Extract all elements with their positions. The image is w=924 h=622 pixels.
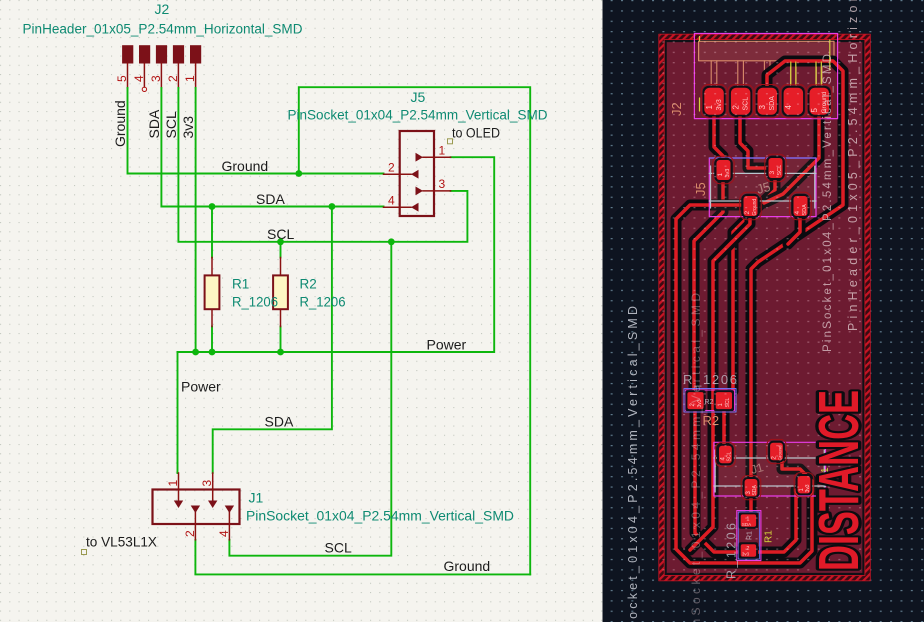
wire SDA from J2.3 to J5.4 xyxy=(161,88,383,207)
svg-text:J1: J1 xyxy=(249,490,264,506)
R1 courtyard xyxy=(737,511,761,561)
svg-text:SCL: SCL xyxy=(325,540,352,556)
resistor R2 body xyxy=(273,275,288,309)
junction Power at R2 xyxy=(277,349,284,356)
J2 pin number 2 xyxy=(166,75,180,82)
connector J2 pad 2 xyxy=(173,45,184,63)
J5 pin 1 lead xyxy=(416,153,451,162)
J1 reference (yellow) xyxy=(820,467,831,478)
connector J1 reference field xyxy=(249,490,264,506)
svg-text:PinSocket_01x04_P2.54mm_Vertic: PinSocket_01x04_P2.54mm_Vertical_SMD xyxy=(288,108,548,123)
svg-text:R1: R1 xyxy=(232,277,249,292)
J2 pad 3 (SDA) xyxy=(754,85,780,118)
svg-text:4: 4 xyxy=(217,530,231,537)
J2 pad 5 (Ground) xyxy=(806,85,832,118)
net label SDA (top horizontal) xyxy=(256,191,285,207)
junction SCL at R2 xyxy=(277,238,284,245)
svg-text:to VL53L1X: to VL53L1X xyxy=(86,535,157,550)
pcb view background xyxy=(603,0,924,622)
J2 pin 2 lead xyxy=(177,64,179,89)
resistor R1 bottom lead xyxy=(211,310,213,326)
svg-text:1: 1 xyxy=(183,75,197,82)
J5 silkscreen lines xyxy=(709,166,816,208)
resistor R2 top lead xyxy=(280,258,282,275)
trace 3v3 from R2 pad2 to R1 pad2 to J1 pad1 xyxy=(695,405,796,552)
wire SCL drop to R2 xyxy=(280,242,282,258)
net label Ground (bottom horizontal) xyxy=(444,558,491,574)
J5 reference (salmon) xyxy=(693,182,708,196)
svg-text:PinSocket_01x04_P2.54mm_Vertic: PinSocket_01x04_P2.54mm_Vertical_SMD xyxy=(246,509,514,524)
pcb board copper zone xyxy=(662,37,868,578)
svg-text:Ground: Ground xyxy=(222,158,269,174)
R1 reference (yellow) xyxy=(764,530,775,543)
silkscreen text PinSocket (on board bottom) xyxy=(689,293,703,622)
trace SDA top route from J2 pad3 along right edge xyxy=(751,61,843,518)
connector J2 pad 4 xyxy=(139,45,150,63)
J2 pin 4 lead (unconnected) xyxy=(142,64,146,92)
trace Ground from J2 pad5 to J5 pad2 xyxy=(764,93,819,203)
R1 fab value R_1206 (vertical) xyxy=(725,523,739,579)
trace through R2 gap xyxy=(690,216,750,550)
svg-text:Power: Power xyxy=(427,337,467,353)
R2 fab value R_1206 xyxy=(683,372,737,387)
svg-text:DISTANCE: DISTANCE xyxy=(808,390,871,571)
J5 pad 1 (3v3) xyxy=(713,156,734,183)
trace Ground from J5 pad2 along left edge and bottom to J1 pad2 xyxy=(676,205,812,563)
junction Power at R1 xyxy=(209,349,216,356)
net label SDA (vertical at J2 pin 3) xyxy=(146,109,162,138)
trace SCL from J5 pad3 to R2 pad1 to J1 pad4 xyxy=(724,178,775,450)
grid dots over board xyxy=(662,37,868,578)
pcb board edge cuts (hatched outline) xyxy=(659,34,871,581)
text annotation to OLED xyxy=(448,126,501,144)
J5 pin 2 lead xyxy=(384,170,419,179)
schematic sheet background xyxy=(0,0,603,622)
svg-text:SDA: SDA xyxy=(146,109,162,138)
J5 pad 2 (Ground) xyxy=(740,192,761,219)
J1 pin 1 lead xyxy=(174,473,183,508)
wire SDA riser down to J1.3 xyxy=(213,207,332,474)
net label SDA (bottom horizontal) xyxy=(265,414,294,430)
J1 fab reference (gray) xyxy=(749,460,765,477)
J1 pad 4 (SCL) xyxy=(716,442,736,466)
J5 fab reference (gray) xyxy=(755,179,772,197)
junction SDA at R1 xyxy=(209,203,216,210)
connector J5 value field PinSocket_01x04_P2.54mm_Vertical_SMD xyxy=(288,108,548,123)
net label SCL (top horizontal) xyxy=(267,226,294,242)
net label Power (right horizontal) xyxy=(427,337,467,353)
J2 pad 1 (3v3) xyxy=(701,85,727,118)
net label SCL (vertical at J2 pin 2) xyxy=(163,111,179,138)
text annotation to VL53L1X xyxy=(82,535,158,555)
resistor R1 value field R_1206 xyxy=(232,295,278,310)
J5 pad 3 (SCL) xyxy=(765,154,786,181)
silkscreen text PinSocket (left of board) xyxy=(626,306,640,622)
J5 pad 4 (SDA) xyxy=(790,192,811,219)
svg-text:4: 4 xyxy=(388,194,395,208)
J2 pin number 5 xyxy=(115,75,129,82)
connector J2 pad 3 xyxy=(156,45,167,63)
R2 pad 2 (3v3) xyxy=(685,390,705,411)
junction SDA at riser xyxy=(329,203,336,210)
J1 pin 4 lead xyxy=(225,506,234,540)
resistor R1 top lead xyxy=(211,258,213,275)
svg-text:to OLED: to OLED xyxy=(452,126,500,141)
wire SCL riser down to J1.4 xyxy=(229,242,391,556)
svg-text:PinHeader_01x05_P2.54mm_Horizo: PinHeader_01x05_P2.54mm_Horizontal_SMD xyxy=(23,22,303,37)
connector J5 body xyxy=(400,131,434,216)
connector J2 reference field xyxy=(155,1,170,17)
svg-text:3: 3 xyxy=(149,75,163,82)
svg-text:1: 1 xyxy=(166,480,180,487)
J2 silkscreen marks xyxy=(700,37,830,112)
J1 pin number 4 xyxy=(217,530,231,537)
resistor R2 bottom lead xyxy=(280,310,282,326)
net label SCL (bottom horizontal) xyxy=(325,540,352,556)
J2 pin number 3 xyxy=(149,75,163,82)
wire 3v3 from J2.1 to Power rail xyxy=(195,88,197,352)
connector J1 value field PinSocket_01x04_P2.54mm_Vertical_SMD xyxy=(246,509,514,524)
wire R2 bottom to Power rail xyxy=(280,327,282,353)
connector J2 pad 5 xyxy=(122,45,133,63)
wire SCL from J2.2 to J5.3 xyxy=(178,88,467,242)
resistor R2 reference field xyxy=(300,277,317,292)
J5 pin 3 lead xyxy=(416,187,451,196)
svg-text:SDA: SDA xyxy=(265,414,294,430)
R1 fab ref between pads xyxy=(747,531,754,540)
svg-text:SDA: SDA xyxy=(256,191,285,207)
J1 pin 2 lead xyxy=(191,506,200,540)
net label Ground (vertical at J2 pin 5) xyxy=(112,100,128,147)
J2 reference (salmon) xyxy=(669,102,684,116)
net label Ground (top horizontal) xyxy=(222,158,269,174)
R1 pad 2 (3v3) xyxy=(739,542,758,558)
J5 pin number 4 xyxy=(388,194,395,208)
silkscreen text PinSocket (right column) xyxy=(822,54,834,352)
wire Ground riser to top rail and right side xyxy=(299,87,530,574)
svg-text:2: 2 xyxy=(388,161,395,175)
J2 pin number 1 xyxy=(183,75,197,82)
J2 pin 1 lead xyxy=(195,64,197,89)
connector J5 reference field xyxy=(411,89,426,105)
net label Power (left vertical wire) xyxy=(181,379,221,395)
svg-text:5: 5 xyxy=(115,75,129,82)
J1 silkscreen lines xyxy=(714,450,826,492)
svg-text:3v3: 3v3 xyxy=(180,116,196,139)
J1 pin number 3 xyxy=(200,480,214,487)
J2 pin number 4 xyxy=(132,75,146,82)
svg-text:Ground: Ground xyxy=(444,558,491,574)
resistor R2 value field R_1206 xyxy=(300,295,346,310)
svg-text:Power: Power xyxy=(181,379,221,395)
svg-text:R2: R2 xyxy=(300,277,317,292)
wire R1 bottom to Power rail xyxy=(211,327,213,353)
J2 footprint fab body xyxy=(699,41,834,61)
net label 3v3 (vertical at J2 pin 1) xyxy=(180,116,196,139)
J5 pin number 2 xyxy=(388,161,395,175)
copper text DISTANCE xyxy=(808,390,871,571)
J5 courtyard xyxy=(709,158,816,217)
J1 courtyard xyxy=(714,442,826,496)
J1 pad 3 (SDA) xyxy=(741,476,761,500)
connector J1 body xyxy=(153,490,240,525)
trace SDA stub from J5 pad4 xyxy=(788,212,800,244)
J1 pin number 1 xyxy=(166,480,180,487)
J1 pad 2 (Ground) xyxy=(767,439,787,463)
R2 reference (salmon) xyxy=(703,413,720,428)
J5 pin number 1 xyxy=(439,144,446,158)
J2 fab pin stubs xyxy=(711,61,822,85)
wire Ground bottom from J1.2 to right riser xyxy=(195,540,530,575)
svg-text:Ground: Ground xyxy=(112,100,128,147)
R2 pad 1 (SCL) xyxy=(714,390,734,411)
wire SDA drop to R1 xyxy=(211,207,213,258)
svg-text:3: 3 xyxy=(439,177,446,191)
trace 3v3 from J2 pad1 to J5 pad1 and down to R2 pad2 xyxy=(694,93,723,395)
trace SCL from J2 pad2 to J5 pad3 xyxy=(740,93,770,168)
svg-text:2: 2 xyxy=(166,75,180,82)
R2 courtyard xyxy=(684,389,736,413)
J2 pad 4 xyxy=(781,85,807,118)
J2 courtyard xyxy=(694,34,837,119)
J1 pin 3 lead xyxy=(208,473,217,508)
J2 pin 5 lead xyxy=(127,64,129,89)
J2 pad 2 (SCL) xyxy=(728,85,754,118)
svg-text:2: 2 xyxy=(183,530,197,537)
connector J2 pad 1 xyxy=(190,45,201,63)
J5 pin 4 lead xyxy=(384,203,419,212)
svg-text:4: 4 xyxy=(132,75,146,82)
wire Power rail from J5.1 down and left to J1.1 xyxy=(178,157,495,473)
J5 pin number 3 xyxy=(439,177,446,191)
svg-text:R_1206: R_1206 xyxy=(300,295,346,310)
svg-text:3: 3 xyxy=(200,480,214,487)
svg-text:J5: J5 xyxy=(411,89,426,105)
svg-text:R_1206: R_1206 xyxy=(232,295,278,310)
J1 pin number 2 xyxy=(183,530,197,537)
J2 pin 3 lead xyxy=(160,64,162,89)
resistor R1 body xyxy=(205,275,220,309)
junction SCL at riser xyxy=(388,238,395,245)
resistor R1 reference field xyxy=(232,277,249,292)
svg-text:1: 1 xyxy=(439,144,446,158)
svg-text:J2: J2 xyxy=(155,1,170,17)
junction Power at 3v3 xyxy=(192,349,199,356)
connector J2 value field PinHeader_01x05_P2.54mm_Horizontal_SMD xyxy=(23,22,303,37)
wire Ground from J2.5 to J5.2 xyxy=(128,88,384,174)
svg-text:SCL: SCL xyxy=(163,111,179,138)
junction Ground at (298.8,173.5) xyxy=(295,170,302,177)
silkscreen text PinHeader (right column) xyxy=(846,0,860,331)
R1 pad 1 (SDA) xyxy=(739,512,758,528)
J1 pad 1 (3v3) xyxy=(794,473,814,497)
R2 fab ref between pads xyxy=(705,399,714,406)
